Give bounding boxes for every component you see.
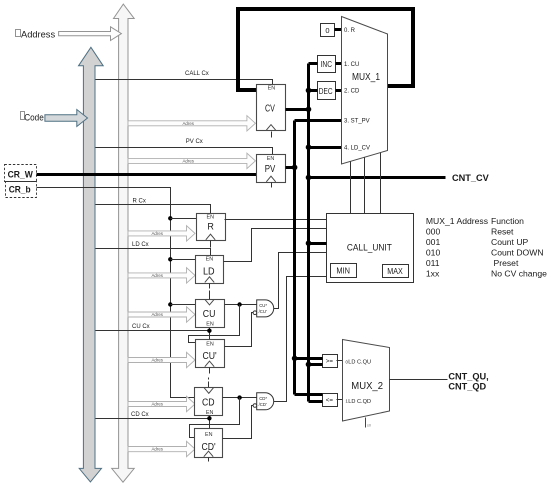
wire CV vert to INC (thick): [309, 62, 318, 65]
svg-text:011: 011: [426, 258, 440, 268]
wire CU' out to gate inverted input: [225, 313, 254, 347]
svg-text:Function: Function: [491, 216, 524, 226]
wire CD out to gate: [223, 397, 257, 399]
svg-text:EN: EN: [206, 410, 214, 416]
wire CV vert to DEC (thick): [309, 89, 318, 92]
label CR_b dashed box: [6, 182, 37, 198]
svg-text:0: 0: [325, 26, 329, 35]
wire comparator >= to MUX_2: [337, 360, 344, 362]
svg-text:EN: EN: [206, 257, 214, 263]
svg-text:Adres: Adres: [152, 358, 164, 363]
svg-text:Adres: Adres: [152, 273, 164, 278]
block CALL_UNIT: [327, 214, 414, 283]
svg-text:MUX_2: MUX_2: [351, 381, 383, 392]
svg-text:CU*: CU*: [259, 303, 267, 308]
svg-text:CR_W: CR_W: [8, 169, 33, 179]
svg-text:MUX_1 Address: MUX_1 Address: [426, 216, 488, 226]
svg-text:EN: EN: [206, 342, 214, 348]
svg-text:Adres: Adres: [183, 158, 195, 163]
svg-text:R: R: [207, 222, 214, 232]
svg-text:CU Cx: CU Cx: [132, 324, 150, 330]
svg-text:Count UP: Count UP: [491, 237, 529, 247]
svg-text:/CU': /CU': [259, 309, 267, 314]
svg-text:Adres: Adres: [152, 312, 164, 317]
node CR_b to R: [168, 216, 172, 220]
svg-text:PV Cx: PV Cx: [186, 139, 203, 145]
svg-text:DEC: DEC: [319, 87, 333, 96]
svg-text:CR_b: CR_b: [9, 185, 31, 195]
register CD: [195, 378, 223, 417]
block INC: [318, 56, 336, 73]
node CALL_UNIT thick input junction: [306, 240, 312, 246]
wire CV value vertical (thick): [307, 64, 310, 402]
label Address: [16, 30, 21, 37]
svg-text:CALL Cx: CALL Cx: [185, 71, 209, 77]
wire CD out to CD' D: [190, 398, 240, 438]
wire CR_b horizontal: [37, 188, 195, 398]
wire comparator <= to MUX_2: [337, 399, 344, 401]
svg-text:000: 000: [426, 227, 441, 237]
node DEC junction: [306, 88, 312, 94]
svg-text:Adres: Adres: [152, 402, 164, 407]
bus Code (gray vertical double arrow): [79, 47, 104, 482]
svg-text:CD Cx: CD Cx: [131, 412, 149, 418]
svg-text:LD: LD: [203, 266, 215, 277]
gate CD*/CD': [253, 393, 274, 410]
svg-text:/CD': /CD': [259, 402, 267, 407]
mux MUX_1: [342, 17, 388, 165]
wire PV to comparator <= (thick): [295, 393, 323, 396]
wire CV to comparator <= (thick): [309, 400, 323, 403]
wire 0 to MUX pin 0 (thick): [335, 28, 342, 31]
svg-text:LD Cx: LD Cx: [132, 242, 149, 248]
wire CU out to CU' D: [189, 305, 240, 343]
svg-text:EN: EN: [207, 215, 215, 221]
register PV: [257, 155, 286, 188]
svg-text:MUX_1: MUX_1: [352, 72, 380, 83]
svg-text:MIN: MIN: [336, 267, 350, 276]
register CV: [257, 85, 286, 138]
wire PV to comparator >= (thick): [295, 357, 323, 360]
wire LD_CV to MUX pin 4 (thick): [309, 146, 342, 149]
bus Address (white vertical double arrow): [112, 4, 135, 482]
svg-text:CV: CV: [265, 103, 275, 114]
table MUX_1 Address Function: [426, 216, 547, 279]
svg-text:EN: EN: [268, 85, 276, 91]
constant 0 box: [321, 24, 335, 37]
svg-text:Adres: Adres: [152, 447, 164, 452]
comparator >=: [323, 355, 338, 368]
svg-text:EN: EN: [267, 156, 275, 162]
arrow Adres to LD: [128, 268, 195, 283]
arrow Adres to PV: [128, 153, 255, 168]
svg-text:CNT_CV: CNT_CV: [452, 173, 490, 183]
svg-text:0. R: 0. R: [344, 28, 356, 34]
svg-text:EN: EN: [205, 432, 213, 438]
wire INC to MUX pin 1 (thick): [336, 62, 342, 65]
svg-text:Preset: Preset: [494, 258, 519, 268]
node CNT_CV junction: [306, 175, 312, 181]
wire CU out to gate: [225, 304, 257, 306]
wire LD out riser to CALL_UNIT: [224, 229, 327, 262]
block DEC: [318, 82, 336, 100]
svg-text:CD*: CD*: [259, 396, 267, 401]
arrow Adres to CU: [128, 307, 195, 322]
node CU Cx junction: [207, 329, 211, 333]
svg-text:Adres: Adres: [152, 231, 164, 236]
svg-text:CD: CD: [202, 397, 215, 408]
wire CR_W (thick): [37, 173, 257, 176]
node CR_b to LD: [168, 257, 172, 261]
svg-text:1. CU: 1. CU: [344, 62, 359, 68]
wire MUX_2 output: [390, 379, 448, 381]
arrow Adres to CU': [128, 352, 195, 367]
arrow Adres to CD': [128, 441, 195, 456]
svg-text:Reset: Reset: [491, 227, 514, 237]
wire CV to comparator >= (thick): [309, 363, 323, 366]
svg-text:<=: <=: [326, 397, 334, 404]
register CU: [196, 291, 225, 328]
svg-text:3. ST_PV: 3. ST_PV: [344, 119, 370, 125]
svg-text:CNT_QU,: CNT_QU,: [448, 372, 488, 382]
svg-text:Address: Address: [21, 29, 55, 39]
node CU out branch: [237, 302, 241, 306]
node CR_b to CU: [168, 302, 172, 306]
node CD out branch: [237, 395, 241, 399]
node PV comparator junction: [292, 356, 298, 362]
wire feedback loop MUX_1 out to CV D (thick): [238, 9, 413, 90]
node PV out junction: [292, 165, 298, 171]
svg-text:LD C.QD: LD C.QD: [348, 399, 371, 405]
node LD_CV junction: [306, 144, 312, 150]
register LD: [196, 256, 224, 289]
wire gate CD out riser to CALL_UNIT: [274, 277, 327, 402]
wire gate CU out riser to CALL_UNIT: [274, 253, 327, 309]
register CD': [195, 429, 223, 462]
arrow Address into bus: [59, 27, 122, 41]
svg-text:CNT_QD: CNT_QD: [448, 382, 486, 392]
svg-text:LD C.QU: LD C.QU: [348, 360, 371, 366]
svg-text:R Cx: R Cx: [133, 199, 146, 205]
label CR_W dashed box: [5, 165, 37, 182]
wire R out: [225, 219, 327, 221]
register R: [197, 214, 226, 248]
arrow Adres to CD: [128, 396, 195, 411]
svg-text:4. LD_CV: 4. LD_CV: [344, 146, 370, 152]
node CV out junction: [306, 107, 312, 113]
wire CD' out to gate inverted input: [223, 406, 254, 439]
wire PV value vertical (thick): [293, 121, 296, 395]
svg-text:MAX: MAX: [387, 267, 403, 276]
svg-text:EN: EN: [206, 322, 214, 328]
svg-text:010: 010: [426, 248, 441, 258]
node CV comparator junction: [306, 362, 312, 368]
svg-text:CALL_UNIT: CALL_UNIT: [347, 243, 392, 254]
label Code: [21, 112, 25, 120]
svg-text:Count DOWN: Count DOWN: [491, 248, 544, 258]
svg-text:>=: >=: [326, 358, 334, 365]
wire MUX_2 select stub: [365, 418, 367, 428]
svg-text:s0: s0: [367, 423, 371, 427]
arrow Adres to R: [128, 226, 195, 241]
register CU': [196, 340, 225, 374]
wire MUX_1 select lines to CALL_UNIT: [350, 162, 352, 214]
node CD Cx junction: [207, 416, 211, 420]
svg-text:Adres: Adres: [183, 121, 195, 126]
svg-text:INC: INC: [321, 60, 333, 69]
svg-text:CU': CU': [203, 351, 217, 362]
wire CNT_CV (thick): [309, 176, 446, 179]
gate CU*/CU': [253, 300, 274, 317]
comparator <=: [323, 394, 338, 407]
svg-text:No CV change: No CV change: [491, 269, 547, 279]
svg-text:PV: PV: [265, 164, 276, 175]
wire ST_PV to MUX pin 3 (thick): [295, 119, 342, 122]
svg-text:CU: CU: [203, 309, 216, 320]
svg-text:2. CD: 2. CD: [344, 89, 360, 95]
svg-text:Code: Code: [24, 112, 44, 122]
svg-text:1xx: 1xx: [426, 269, 440, 279]
arrow Code into bus: [45, 110, 88, 127]
wire CV out (thick): [286, 108, 309, 111]
mux MUX_2: [343, 340, 390, 422]
svg-text:001: 001: [426, 237, 441, 247]
wire PV out (thick): [286, 166, 295, 169]
wire CALL_UNIT thick input: [309, 242, 327, 245]
wire DEC to MUX pin 2 (thick): [336, 89, 342, 92]
arrow Adres to CV: [128, 116, 255, 131]
